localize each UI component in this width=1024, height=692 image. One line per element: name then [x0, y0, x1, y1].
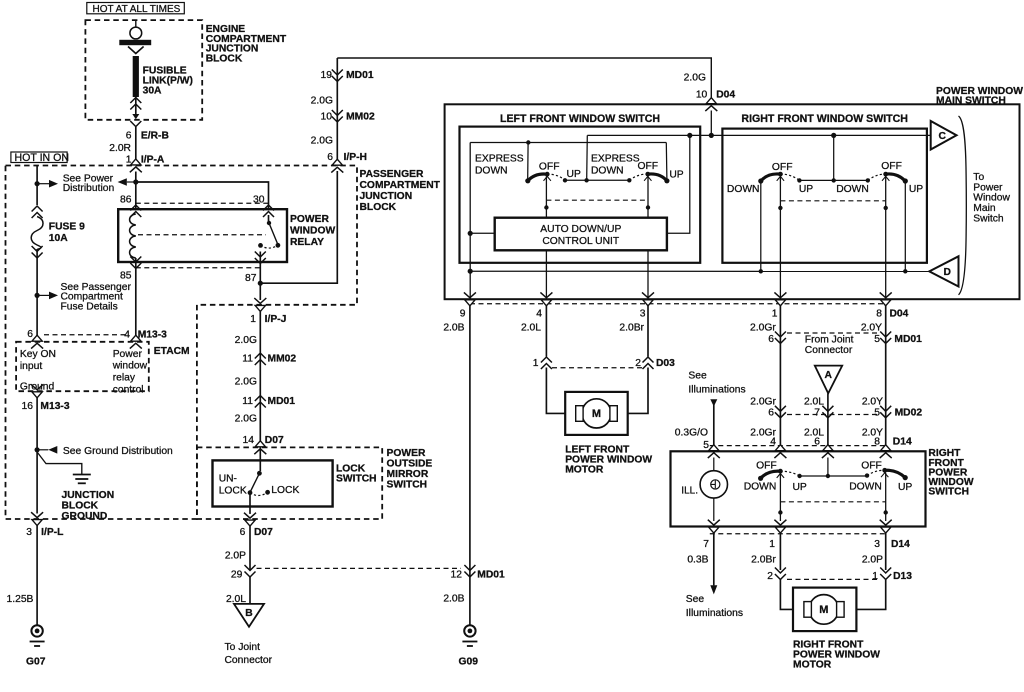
svg-text:2: 2 [767, 571, 773, 582]
wire 2.0L to joint connector B [249, 577, 251, 604]
svg-text:0.3G/O: 0.3G/O [675, 427, 708, 438]
svg-text:2.0G: 2.0G [311, 136, 333, 147]
label POWER WINDOW RELAY [290, 214, 335, 248]
connector chevrons relay pin 85 [130, 257, 141, 269]
node fuse details junction [35, 293, 40, 298]
svg-text:14: 14 [243, 435, 255, 446]
svg-text:86: 86 [120, 195, 132, 206]
svg-text:To Joint: To Joint [225, 642, 261, 653]
svg-text:OFF: OFF [881, 161, 902, 172]
label LEFT FRONT POWER WINDOW MOTOR [565, 445, 652, 476]
svg-text:5: 5 [874, 334, 880, 345]
dotted arc right-1 to UP [780, 174, 799, 180]
node ground distribution junction [35, 447, 40, 452]
dashed connector line 29 to 12 [257, 567, 462, 569]
svg-text:Key ON: Key ON [20, 349, 56, 360]
joint connector B (triangle) [234, 604, 264, 627]
right front power window switch SW2 (box) [671, 451, 926, 526]
svg-text:12: 12 [451, 570, 463, 581]
arrow from I/P-A wire to See Power Distribution [118, 178, 136, 186]
node DOWN contact right-switch-2 [866, 178, 870, 182]
connector chevrons 12 MD01 [464, 565, 475, 577]
labels 2.0Gr 2.0L 2.0Y (upper) [750, 396, 883, 407]
connector I/P-A pin 1 (junction block boundary) [130, 159, 142, 172]
label 1 D13 [872, 571, 912, 582]
svg-text:A: A [824, 370, 832, 381]
dashed connector line D14 top row [710, 445, 888, 447]
svg-text:OFF: OFF [638, 161, 659, 172]
label 11 MD01 [242, 396, 295, 407]
svg-text:Main: Main [973, 203, 996, 214]
connector chevrons MD02 row [775, 406, 891, 418]
arrow to See Passenger Compartment Fuse Details [37, 292, 58, 300]
svg-text:2.0Y: 2.0Y [862, 396, 883, 407]
svg-text:I/P-J: I/P-J [265, 314, 287, 325]
svg-text:M: M [592, 408, 601, 420]
wire arm lower-2 to pin 3 [885, 473, 887, 522]
wire contacts line (lower switch) [800, 475, 867, 477]
dashed link coil to contact [138, 234, 266, 236]
node control unit ground junction [468, 231, 473, 236]
wire arm right-1 to pin 1 [779, 176, 781, 299]
connector pin 16 M13-3 out of ETACM [31, 384, 43, 397]
svg-text:DOWN: DOWN [836, 184, 869, 195]
lock switch SW1 (box) [213, 460, 333, 506]
wire I/P-H riser 2.0G [336, 58, 338, 161]
label 1 I/P-A [126, 155, 165, 166]
wire center drop to contacts (lower switch) [827, 458, 829, 477]
svg-text:OFF: OFF [861, 460, 882, 471]
connector pin 3 I/P-L (junction block boundary) [31, 512, 43, 525]
svg-text:Switch: Switch [973, 214, 1004, 225]
label To Joint Connector [225, 642, 273, 666]
svg-text:G09: G09 [459, 656, 479, 667]
connector pin 10 D04 into main switch [705, 98, 717, 111]
svg-text:SWITCH: SWITCH [336, 474, 377, 485]
label 10 D04 [696, 90, 736, 101]
wire D03 to left motor + [546, 368, 565, 414]
svg-text:2.0Gr: 2.0Gr [750, 323, 776, 334]
svg-text:POWER: POWER [387, 448, 426, 459]
label See Illuminations (top) [688, 371, 745, 396]
triangle D (to power window main switch) [929, 256, 958, 286]
relay K1 contact [258, 215, 280, 248]
connector chevrons 19 MD01 [332, 70, 343, 82]
joint connector A (triangle) [815, 366, 842, 394]
svg-text:control: control [113, 384, 144, 395]
wire 1.25B to G07 [36, 526, 38, 626]
arrow to illuminations (bottom) [710, 585, 717, 594]
wire lock switch to D07 pin 6 [249, 493, 251, 514]
labels 2.0Gr 2.0L 2.0Y (lower) [750, 427, 883, 438]
label See Illuminations (bottom) [686, 594, 743, 619]
svg-text:D07: D07 [254, 527, 273, 538]
dotted arc right-2 DOWN to pivot [868, 174, 886, 180]
wire to control unit left [470, 232, 495, 234]
svg-text:2.0L: 2.0L [804, 396, 824, 407]
svg-text:Illuminations: Illuminations [686, 608, 743, 619]
wire top rail 2.0G to D04 [337, 58, 711, 99]
label 3 I/P-L [26, 527, 63, 538]
svg-text:BLOCK: BLOCK [206, 54, 243, 65]
label JUNCTION BLOCK GROUND [62, 490, 115, 522]
connector chevrons 6 MD01 [775, 332, 786, 344]
wire joint connector A to MD02 (2.0L) [827, 393, 829, 452]
svg-text:10: 10 [321, 112, 333, 123]
svg-text:MOTOR: MOTOR [793, 660, 832, 671]
svg-text:4: 4 [124, 330, 130, 341]
wire pin 9 / control unit ground [469, 143, 471, 300]
svg-text:Window: Window [973, 193, 1010, 204]
connectors D14 out of switch [708, 520, 892, 533]
label 5 MD01 [874, 334, 922, 345]
label 6 E/R-B [126, 131, 169, 142]
svg-text:10A: 10A [49, 233, 68, 244]
label LOCK SWITCH [336, 464, 377, 485]
wire feed to control unit right [667, 135, 690, 233]
arrow from illuminations [710, 399, 717, 406]
dotted arc switch1 to UP [547, 174, 565, 180]
svg-text:See: See [688, 371, 707, 382]
chevron below bus bar [128, 47, 144, 54]
svg-text:2.0Y: 2.0Y [861, 323, 882, 334]
dotted arc lower-1 to UP [780, 471, 799, 476]
svg-text:1.25B: 1.25B [7, 594, 34, 605]
passenger compartment junction block (dashed boundary) [6, 166, 358, 520]
label RIGHT FRONT POWER WINDOW SWITCH [928, 448, 973, 497]
svg-text:6: 6 [27, 329, 33, 340]
svg-text:UP: UP [909, 184, 923, 195]
svg-text:UN-: UN- [219, 474, 237, 485]
svg-text:2.0B: 2.0B [443, 594, 464, 605]
svg-text:OFF: OFF [772, 162, 793, 173]
node UP contact right-switch-1 [797, 178, 801, 182]
wire 87 branch to I/P-H riser [260, 171, 337, 283]
connector chevrons 11 MD01 [255, 396, 266, 408]
svg-text:2.0G: 2.0G [311, 95, 333, 106]
svg-text:See: See [686, 594, 705, 605]
label See Power Distribution [63, 174, 115, 195]
auto down/up control unit U1 (box) [495, 218, 667, 251]
label 2 D03 [635, 358, 675, 369]
connector pin 4 M13-3 into ETACM [130, 335, 142, 348]
dashed mechanical link arms 1-2 [546, 199, 648, 201]
svg-text:D14: D14 [893, 437, 912, 448]
label Key ON input [20, 349, 56, 372]
svg-text:6: 6 [768, 408, 774, 419]
svg-text:3: 3 [640, 309, 646, 320]
svg-text:Power: Power [973, 182, 1003, 193]
fusible link bus bar [119, 40, 151, 45]
node center contact junction [832, 178, 836, 182]
svg-text:D13: D13 [893, 571, 912, 582]
switch arm lower-1 (thick) [758, 469, 784, 481]
labels main switch pins 9 4 3 1 8 D04 [460, 309, 909, 320]
svg-text:10: 10 [696, 90, 708, 101]
node D04 rail junction [709, 133, 714, 138]
wire pin 3 to D13 [885, 533, 887, 570]
labels wire gauges below main switch [443, 323, 882, 334]
svg-text:16: 16 [22, 401, 34, 412]
connector pin 14 D07 into mirror switch [254, 441, 266, 454]
wire relay coil to pin 85 [135, 258, 137, 337]
svg-text:1: 1 [250, 314, 256, 325]
dashed mechanical link lower arms [780, 501, 885, 503]
label 6 I/P-H [327, 152, 367, 163]
svg-text:MD01: MD01 [477, 570, 505, 581]
svg-text:2.0P: 2.0P [225, 550, 246, 561]
svg-text:I/P-L: I/P-L [41, 527, 63, 538]
svg-text:HOT IN ON: HOT IN ON [15, 152, 70, 164]
svg-text:UP: UP [799, 184, 813, 195]
svg-text:input: input [20, 361, 42, 372]
svg-text:2.0R: 2.0R [109, 143, 131, 154]
labels 0.3B 2.0Br 2.0P [687, 555, 883, 566]
connector chevrons 2 D13 [775, 568, 786, 580]
label FUSE 9 10A [49, 222, 85, 245]
svg-text:D07: D07 [265, 435, 284, 446]
dotted arc to switch 2 pivot [629, 174, 648, 180]
power outside mirror switch (dashed box) [197, 447, 382, 519]
wire drop to express down contact 1 [527, 143, 529, 179]
svg-text:Power: Power [113, 349, 143, 360]
svg-text:MAIN SWITCH: MAIN SWITCH [936, 96, 1006, 107]
dashed connector line D04 bottom [470, 303, 886, 305]
svg-text:6: 6 [814, 437, 820, 448]
svg-text:B: B [245, 608, 252, 619]
svg-text:29: 29 [231, 570, 243, 581]
svg-text:2.0G: 2.0G [235, 414, 257, 425]
connector chevrons 10 MM02 [332, 110, 343, 122]
svg-text:window: window [112, 361, 148, 372]
label UN-LOCK [219, 474, 247, 497]
node P1 express down [526, 140, 530, 144]
ground (chassis) junction block ground [73, 475, 91, 484]
fuse F9 body [31, 217, 43, 250]
svg-text:2: 2 [635, 358, 641, 369]
label EXPRESS DOWN (switch 2) [591, 154, 640, 177]
svg-text:M13-3: M13-3 [40, 401, 69, 412]
label 1 I/P-J [250, 314, 286, 325]
connectors D14 into switch [708, 445, 892, 458]
svg-text:1: 1 [533, 358, 539, 369]
label From Joint Connector [805, 335, 854, 356]
connector chevrons above E/R-B [130, 98, 141, 110]
labels 7 1 3 D14 [703, 539, 910, 550]
svg-text:OFF: OFF [756, 460, 777, 471]
wire 0.3G/O to ILL pin 5 [713, 403, 715, 453]
node I/P-A distribution junction [133, 179, 138, 184]
svg-text:D: D [944, 267, 951, 278]
dashed connector line 85 to 87 [136, 267, 260, 269]
dashed connector line 86 to 30 [136, 202, 269, 204]
svg-text:M: M [819, 604, 828, 616]
switch arm lower-2 (thick) [881, 468, 908, 480]
label 6 D07 [240, 527, 274, 538]
switch arm right-1 (thick) [758, 172, 784, 184]
wire D04 stem [710, 111, 712, 136]
svg-text:ILL.: ILL. [681, 486, 698, 497]
node rail D down contact 1 [759, 269, 763, 273]
node arm right-2 link [884, 206, 888, 210]
label POWER OUTSIDE MIRROR SWITCH [387, 448, 433, 491]
node lower center contact [826, 474, 830, 478]
wire branch to junction block ground [37, 452, 82, 474]
svg-text:MD01: MD01 [894, 334, 922, 345]
svg-text:AUTO DOWN/UP: AUTO DOWN/UP [540, 224, 621, 235]
wire UP contact 2 to rail D [904, 181, 906, 271]
power window main switch (box) [445, 104, 1020, 299]
labels 6 7 5 MD02 [768, 408, 922, 419]
svg-text:UP: UP [567, 169, 581, 180]
svg-text:3: 3 [26, 527, 32, 538]
svg-text:1: 1 [772, 309, 778, 320]
node D04 drop junction [584, 178, 588, 182]
svg-text:G07: G07 [26, 656, 46, 667]
wire pin 9 to G09 (2.0B) [469, 306, 471, 625]
label 14 D07 [243, 435, 284, 446]
ground G09 [462, 625, 477, 646]
wire rail D (ground return) [470, 270, 929, 272]
svg-text:MM02: MM02 [268, 354, 297, 365]
wire pin 3 to connector D03 [647, 306, 649, 357]
label ENGINE COMPARTMENT JUNCTION BLOCK [206, 24, 287, 65]
wire 2.0R E/R-B to I/P-A [135, 127, 137, 160]
labels 4 6 8 D14 [770, 437, 912, 448]
engine compartment junction block (dashed box) [85, 20, 202, 120]
svg-text:DOWN: DOWN [744, 482, 777, 493]
right front window switch (box) [722, 129, 927, 263]
wire arm right-2 to pin 8 [885, 176, 887, 299]
dashed connector line D14 bottom row [710, 533, 888, 535]
connector E/R-B pin 6 (junction block boundary) [130, 121, 141, 127]
svg-text:3: 3 [874, 539, 880, 550]
dashed connector line 6 to 4 [44, 334, 126, 336]
connector chevrons 2 D03 [643, 357, 654, 369]
triangle C (to power window main switch) [931, 121, 957, 150]
wire D13 to right motor + [780, 579, 793, 609]
svg-text:I/P-H: I/P-H [344, 152, 367, 163]
label 10 MM02 [321, 112, 375, 123]
svg-text:DOWN: DOWN [727, 184, 760, 195]
brace to power window main switch [959, 116, 967, 295]
relay K1 coil [130, 214, 136, 258]
motor M1 left front power window motor [565, 392, 628, 435]
dashed mechanical link right arms [780, 200, 885, 202]
node UP contact 1 [563, 178, 567, 182]
svg-text:GROUND: GROUND [62, 511, 108, 522]
wire fuse 9 feed [36, 166, 38, 206]
label PASSENGER COMPARTMENT JUNCTION BLOCK [360, 169, 441, 213]
label FUSIBLE LINK(P/W) 30A [143, 65, 193, 96]
connector chevrons 5 MD01 [880, 332, 891, 344]
svg-text:4: 4 [536, 309, 542, 320]
svg-text:BLOCK: BLOCK [62, 500, 99, 511]
svg-text:6: 6 [768, 334, 774, 345]
wire pin 4 to connector D03 [545, 306, 547, 357]
motor M2 right front power window motor [793, 588, 856, 632]
node arm right-1 link [778, 206, 782, 210]
svg-text:MOTOR: MOTOR [565, 465, 604, 476]
svg-text:85: 85 [120, 271, 132, 282]
label 12 MD01 [451, 570, 506, 581]
label RIGHT FRONT POWER WINDOW MOTOR [793, 640, 880, 671]
svg-text:9: 9 [460, 309, 466, 320]
svg-text:LOCK: LOCK [271, 485, 299, 496]
svg-text:OFF: OFF [539, 162, 560, 173]
wire D04 feed rail to triangle C [587, 134, 930, 136]
lamp ILL [700, 458, 727, 522]
svg-text:MD01: MD01 [268, 396, 296, 407]
fusible link holder circle [130, 20, 142, 39]
wire arm lower-1 to pin 1 [779, 473, 781, 521]
svg-text:2.0G: 2.0G [235, 377, 257, 388]
wire express-down rail (to pin 9 ground) [470, 142, 666, 144]
wire UP line switch1 to switch2 [565, 179, 629, 181]
svg-text:2.0P: 2.0P [862, 555, 883, 566]
ETACM (dashed box) [16, 342, 149, 391]
svg-text:SWITCH: SWITCH [928, 487, 969, 498]
dashed connector line D03 [552, 367, 642, 369]
wire ETACM ground to I/P-L [36, 398, 38, 514]
node lower UP contact 1 [797, 474, 801, 478]
main switch bottom pin connectors [464, 292, 892, 305]
wire rail right drop to UP contact 2 [665, 143, 668, 180]
svg-text:2.0Br: 2.0Br [751, 555, 776, 566]
wire switch arm 1 to pin 4 [545, 176, 547, 299]
svg-text:OUTSIDE: OUTSIDE [387, 459, 433, 470]
connector I/P-H pin 6 (junction block boundary) [331, 159, 343, 172]
node fuse feed junction [35, 181, 40, 186]
node express down contact 2 [627, 178, 631, 182]
wire 2.0P to connector 29 [249, 526, 251, 570]
svg-text:UP: UP [669, 170, 683, 181]
fusible link F/L body [133, 56, 139, 97]
svg-text:6: 6 [240, 527, 246, 538]
svg-text:2.0Br: 2.0Br [619, 323, 644, 334]
connector chevrons 1 D03 [541, 357, 552, 369]
connector chevrons relay pin 87 [255, 252, 266, 264]
svg-text:Connector: Connector [225, 655, 273, 666]
left front window switch (box) [460, 127, 701, 263]
connector chevrons relay pin 86 [130, 205, 141, 217]
labels OFF DOWN UP (lower switch) [744, 460, 913, 493]
node rail junction right switch [831, 133, 836, 138]
svg-text:EXPRESS: EXPRESS [475, 154, 524, 165]
svg-text:19: 19 [321, 70, 333, 81]
svg-text:30: 30 [253, 195, 265, 206]
node control unit feed junction [687, 133, 692, 138]
connector chevrons 1 D13 [880, 568, 891, 580]
svg-text:ETACM: ETACM [154, 346, 190, 357]
svg-text:MM02: MM02 [346, 112, 375, 123]
svg-text:7: 7 [814, 408, 820, 419]
ground G07 [30, 625, 45, 646]
switch arm right-2 (thick) [882, 172, 908, 184]
connector chevrons 29 [245, 565, 256, 577]
svg-text:1: 1 [872, 571, 878, 582]
svg-text:RIGHT FRONT WINDOW SWITCH: RIGHT FRONT WINDOW SWITCH [741, 113, 908, 125]
svg-text:MD02: MD02 [895, 408, 923, 419]
label POWER WINDOW MAIN SWITCH [936, 86, 1023, 107]
dashed connector line MD01 row [787, 332, 878, 334]
svg-text:DOWN: DOWN [475, 166, 508, 177]
node arm 1 link [544, 205, 548, 209]
svg-text:DOWN: DOWN [849, 482, 882, 493]
node 87 branch junction [258, 281, 263, 286]
switch arm 1 (express down, thick) [525, 172, 551, 184]
connector chevrons relay pin 30 [263, 205, 274, 217]
